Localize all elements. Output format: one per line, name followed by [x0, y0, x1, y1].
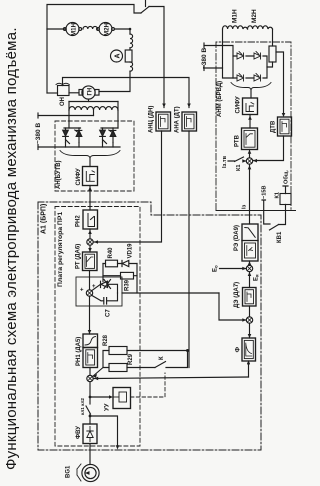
thyristor VS1: [63, 128, 70, 144]
svg-text:М2Н: М2Н: [104, 22, 111, 36]
wire: node down: [89, 382, 91, 404]
wire: sum node to RTV: [249, 150, 251, 158]
wire: M1H left lead: [47, 28, 65, 30]
wire: pair1 anode bar: [64, 127, 81, 129]
wire: RE output up (Iz): [249, 164, 251, 224]
block ANC (DN) voltage sensor: [156, 112, 171, 131]
wire: contact to K1 coil: [279, 205, 286, 225]
wire: DE to sum node: [249, 306, 251, 317]
block SIFU (BUTV): [83, 167, 98, 186]
wire: to ANC sensor: [149, 7, 164, 108]
wire: node down to F: [249, 323, 251, 338]
svg-text:R28: R28: [103, 334, 109, 346]
svg-text:Общ.: Общ.: [283, 169, 290, 184]
svg-text:−15В: −15В: [262, 185, 268, 199]
contact K blade: [155, 362, 166, 368]
wire: winding ends into BUTV: [69, 110, 118, 128]
summing node (RN1 input): [87, 375, 93, 381]
wire: armature top bus: [47, 5, 141, 30]
svg-text:Ф: Ф: [235, 347, 242, 353]
svg-text:СИФУ: СИФУ: [76, 168, 82, 186]
summing node (DE lower): [246, 317, 252, 323]
wire: R29 right with contact K: [127, 351, 188, 368]
bridge thyristor top-left: [237, 52, 244, 60]
ammeter shunt box: [125, 50, 132, 62]
wire: field right end down: [272, 29, 274, 46]
resistor R40: [106, 260, 118, 267]
summing node (RT input): [86, 290, 92, 296]
label ~380V right: [201, 48, 208, 69]
svg-text:R29: R29: [128, 353, 134, 365]
block RN1 (DA5) upper part (limiter): [83, 334, 98, 348]
wire: supply ~380V right upper: [204, 46, 233, 57]
field winding OVG bar: [69, 101, 118, 103]
summing node (RE input): [246, 265, 252, 271]
svg-text:BG1: BG1: [66, 465, 72, 478]
wire: tap from ON to ANA sensor: [63, 78, 190, 108]
motor M1H: [66, 23, 79, 36]
caption: [3, 27, 20, 470]
wire: -15V down to KV1: [262, 200, 270, 224]
svg-text:КВ1: КВ1: [277, 231, 283, 243]
svg-text:R39: R39: [125, 279, 131, 291]
wire: sum node to RE: [249, 261, 251, 265]
svg-text:РН1 (ДА5): РН1 (ДА5): [76, 337, 82, 366]
svg-text:Iз.тв: Iз.тв: [222, 155, 228, 168]
wire: long EMF feedback from F block: [93, 377, 248, 379]
bridge thyristor bottom-left: [237, 74, 244, 82]
gate bracket to SIFU2: [231, 83, 271, 91]
block RT (DA6): [83, 252, 98, 271]
resistor R28: [109, 347, 127, 355]
wire: R ladder left rail: [103, 351, 109, 368]
dashed box AN(BUTV): [55, 121, 134, 191]
svg-text:Ея: Ея: [254, 274, 260, 281]
svg-text:СИФУ: СИФУ: [236, 96, 242, 114]
svg-text:ОН: ОН: [60, 97, 66, 106]
input Iz.tv with contact K1: [222, 155, 228, 168]
thyristor VS2 (anti-parallel): [75, 128, 82, 143]
wire: supply ~380V lower / cathode bus: [38, 146, 120, 148]
block F (filter): [242, 338, 256, 361]
wire: node to RT: [89, 245, 91, 252]
thyristor bridge rails: [233, 56, 267, 78]
contact kl1 kl2: [86, 406, 91, 424]
svg-text:Функциональная схема электроп: Функциональная схема электропривода меха…: [3, 27, 20, 470]
gate bracket to SIFU: [60, 151, 120, 159]
svg-text:РТВ: РТВ: [235, 134, 241, 147]
motor M2H: [99, 23, 112, 36]
block FVU: [83, 424, 97, 444]
wire: RN1 to sum node: [89, 368, 91, 376]
svg-text:М1Н: М1Н: [71, 22, 78, 36]
wire: network output to right: [122, 292, 219, 294]
label ~380V left: [35, 123, 42, 144]
field winding M1H: [223, 26, 248, 29]
wire: diag into sum node: [92, 368, 103, 378]
diode VD19: [122, 260, 137, 266]
wire: bottom bus into ON: [47, 92, 58, 94]
wire: supply ~380V right lower: [204, 67, 223, 69]
svg-text:Iз: Iз: [242, 204, 248, 209]
node: GN field lead: [88, 99, 90, 101]
block RE (DA9): [242, 224, 258, 261]
resistor (field shunt): [269, 46, 276, 62]
resistor R39: [121, 272, 134, 279]
inductor (series field) between motors: [83, 26, 97, 29]
svg-text:УУ: УУ: [105, 403, 111, 411]
thyristor VS3: [100, 128, 107, 144]
wire: FVU to BG1: [89, 444, 91, 465]
wire: supply stub to top edge: [145, 0, 147, 7]
ammeter A: [111, 50, 123, 62]
wire: [129, 48, 131, 50]
svg-text:АН(БУТВ): АН(БУТВ): [56, 160, 62, 189]
wire: cathode leads to bus: [66, 143, 114, 148]
wire: bridge output right to shunt resistor: [267, 62, 273, 67]
svg-text:~380 В: ~380 В: [35, 123, 42, 144]
wire: feedback rail right: [136, 264, 138, 294]
shunt ON: [58, 86, 70, 96]
svg-text:М2Н: М2Н: [251, 9, 258, 23]
boundary box ANM (BRVD): [216, 42, 291, 210]
svg-text:~380 В: ~380 В: [201, 48, 208, 69]
boundary box A1 (BRP) dash-dot: [38, 202, 261, 450]
svg-text:К1: К1: [275, 192, 281, 199]
block SIFU (ANM): [243, 98, 258, 115]
svg-text:РН2: РН2: [76, 215, 82, 227]
block ANA (DT) current sensor: [182, 112, 197, 131]
svg-text:Плата регулятора ПР1: Плата регулятора ПР1: [57, 212, 64, 287]
block UU: [113, 388, 131, 409]
wire: network node down to RN1: [89, 296, 91, 334]
wire: K1 coil to Obshch: [283, 186, 288, 194]
nonlinear element (crossed): [92, 280, 118, 294]
svg-text:+: +: [80, 288, 84, 294]
wire: ANA output rail: [188, 131, 190, 368]
svg-text:РТ (ДА6): РТ (ДА6): [76, 244, 82, 269]
svg-text:РЭ (DA9): РЭ (DA9): [234, 225, 240, 251]
svg-text:ДЭ (ДА7): ДЭ (ДА7): [234, 282, 240, 308]
resistor R29: [109, 364, 127, 372]
wire: down to GN: [99, 71, 130, 91]
wire: centre tap: [93, 110, 95, 116]
wire: supply ~380V upper: [38, 115, 94, 117]
input Eo: [213, 265, 219, 272]
svg-text:А1 (БРП): А1 (БРП): [41, 204, 48, 234]
svg-text:R40: R40: [108, 247, 114, 259]
wire: RTV to SIFU2: [249, 115, 251, 129]
wire: UU branch down to boundary: [90, 416, 118, 445]
svg-text:VD19: VD19: [128, 243, 134, 259]
summing node (RTV input): [246, 158, 252, 164]
field winding OVG coil: [69, 107, 118, 110]
contact KM (switch blade): [141, 7, 149, 14]
svg-text:АНМ (БРВД): АНМ (БРВД): [217, 81, 223, 117]
svg-text:Ео: Ео: [213, 265, 219, 272]
wire: ANC feedback into node: [93, 131, 161, 242]
boundary box PR1 (regulator board) dashed: [55, 207, 140, 447]
svg-text:АНЦ (ДН): АНЦ (ДН): [149, 106, 155, 133]
wire: DTV feedback into node: [253, 136, 284, 161]
svg-text:К: К: [159, 356, 165, 360]
junction dot: [186, 349, 189, 352]
wire: branch to UU: [90, 396, 109, 398]
capacitor C7: [92, 293, 118, 304]
wire: SIFU to RN2: [89, 186, 91, 211]
svg-text:ГН: ГН: [88, 88, 94, 96]
svg-text:A: A: [115, 53, 122, 58]
block RN2: [83, 210, 98, 229]
wire: R28 right to ANA rail: [127, 350, 188, 352]
contact KV1 blade: [270, 225, 279, 231]
thyristor VS4 (anti-parallel): [109, 128, 116, 143]
wire: Eya from DE up into node: [249, 272, 251, 288]
block DE (DA7): [243, 288, 257, 307]
wire: pair2 anode bar: [101, 127, 118, 129]
wire: feedback rail left: [102, 264, 104, 282]
wire: field left end into bridge: [223, 29, 234, 78]
reactor coil lower: [130, 62, 133, 71]
svg-text:С7: С7: [106, 309, 112, 317]
wire: GN left to shunt ON: [69, 92, 79, 94]
svg-text:К1: К1: [236, 164, 242, 171]
wire: RN2 to sum node: [89, 229, 91, 239]
svg-text:М1Н: М1Н: [232, 9, 239, 23]
bridge thyristor bottom-right: [254, 74, 261, 82]
block RN1 (DA5) lower part: [83, 348, 98, 368]
dashed link UU to contact K: [131, 373, 166, 397]
label -15V: [262, 185, 268, 199]
svg-text:кл1 кл2: кл1 кл2: [80, 398, 85, 415]
svg-text:ДТВ: ДТВ: [271, 120, 277, 133]
svg-text:ФВУ: ФВУ: [76, 426, 82, 439]
wire: tap to DTV: [276, 52, 284, 113]
wire: RT to input network: [89, 271, 91, 290]
tachogenerator BG1: [82, 464, 99, 481]
relay coil K1: [280, 194, 291, 205]
wire: from RT network into node: [219, 293, 246, 320]
block RTV: [242, 128, 258, 150]
wire: F output down and left: [248, 361, 250, 377]
RT input network box: [76, 277, 122, 306]
field winding M2H: [248, 26, 273, 29]
bridge thyristor top-right: [254, 52, 261, 60]
summing node (RN2 input): [87, 239, 93, 245]
block DTV: [278, 117, 292, 136]
wire: M2H to right corner: [114, 29, 130, 34]
wire: armature left bus: [46, 29, 48, 93]
generator GN: [95, 90, 99, 96]
svg-text:АНА (ДТ): АНА (ДТ): [175, 106, 181, 133]
reactor coil upper: [130, 34, 133, 48]
